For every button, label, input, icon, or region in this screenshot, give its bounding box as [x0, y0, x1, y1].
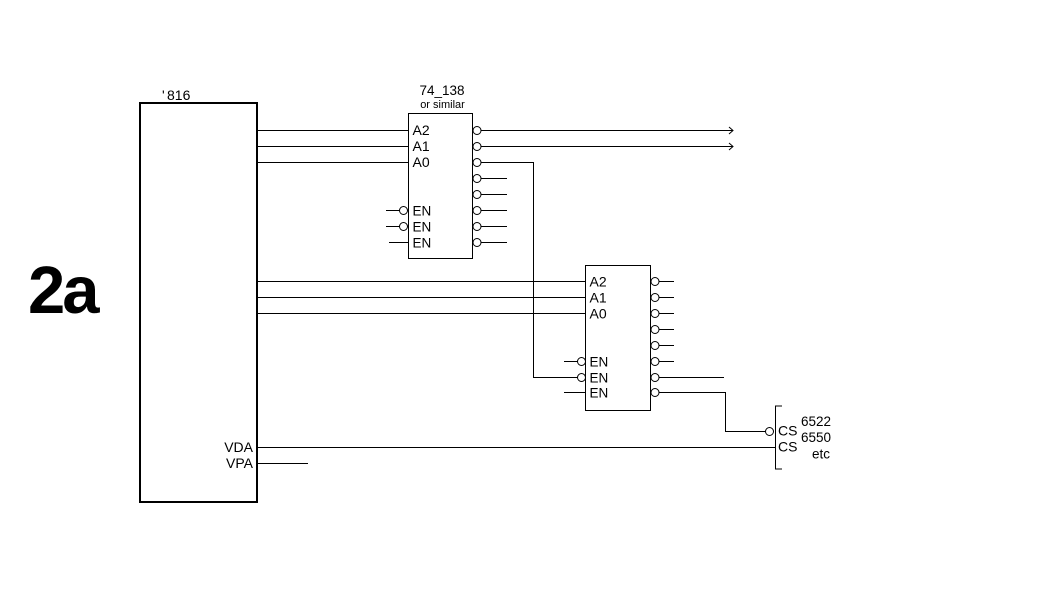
svg-text:816: 816	[167, 87, 191, 103]
svg-text:etc: etc	[812, 447, 830, 462]
svg-text:CS: CS	[778, 423, 797, 439]
svg-text:A1: A1	[413, 138, 430, 154]
svg-text:VPA: VPA	[226, 455, 254, 471]
svg-text:or similar: or similar	[420, 99, 465, 111]
svg-text:A2: A2	[413, 122, 430, 138]
svg-text:EN: EN	[590, 355, 609, 370]
svg-text:6550: 6550	[801, 430, 831, 445]
svg-text:74_138: 74_138	[419, 83, 464, 98]
svg-text:EN: EN	[413, 220, 432, 235]
svg-text:EN: EN	[413, 236, 432, 251]
svg-text:2a: 2a	[28, 253, 100, 328]
svg-text:6522: 6522	[801, 414, 831, 429]
svg-text:EN: EN	[590, 386, 609, 401]
svg-text:EN: EN	[590, 371, 609, 386]
svg-text:CS: CS	[778, 439, 797, 455]
svg-text:A2: A2	[590, 274, 607, 290]
svg-text:EN: EN	[413, 204, 432, 219]
svg-text:A1: A1	[590, 290, 607, 306]
svg-text:VDA: VDA	[224, 439, 253, 455]
svg-text:': '	[162, 87, 165, 103]
svg-text:A0: A0	[413, 154, 430, 170]
svg-text:A0: A0	[590, 306, 607, 322]
